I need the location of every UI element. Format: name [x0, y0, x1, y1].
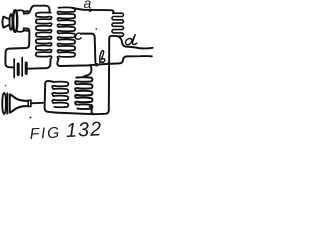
- wire resistor bottom to long vertical: [109, 36, 117, 44]
- wire branch from line b down to coil L4 top: [84, 66, 92, 77]
- wire resistor bottom to right edge (upper lead): [119, 36, 153, 48]
- ink speck: [5, 85, 7, 87]
- coil L1 (induction-coil primary): [36, 13, 52, 59]
- receiver body bottom taper: [10, 106, 28, 112]
- coil L4 (bottom-right coil): [75, 77, 92, 109]
- receiver bell outer ellipse: [2, 93, 6, 114]
- wire node a to resistor top: [84, 10, 113, 14]
- node a junction dot: [89, 9, 92, 12]
- coil L3 (bottom-left coil): [52, 82, 68, 107]
- receiver flange bar 1: [6, 93, 8, 113]
- wire bottom return curl into coil L4 bottom exit: [91, 108, 94, 114]
- wire long vertical (resistor bottom to return wire): [94, 44, 109, 114]
- receiver stub wire: [31, 102, 43, 105]
- receiver collar: [28, 100, 31, 107]
- wire mic top terminal to coil L1 top: [28, 6, 49, 14]
- wire mic bottom terminal down-left to battery: [5, 29, 29, 68]
- battery plate 2 (short thick): [17, 64, 20, 75]
- resistor d (tight meander): [112, 13, 124, 36]
- wire bottom jumper under coils: [56, 113, 94, 115]
- battery plate 3 (long): [21, 58, 23, 77]
- label b (cursive): [100, 51, 105, 63]
- ink speck: [95, 28, 97, 30]
- microphone small disc: [10, 14, 13, 30]
- receiver flange bar 2: [9, 94, 11, 112]
- wire line b from coil L2 exit to right edge: [61, 56, 152, 66]
- svg-text:a: a: [84, 0, 92, 11]
- receiver body top taper: [10, 95, 28, 101]
- wire coil L1 bottom to battery wire: [28, 59, 50, 69]
- wire c (tap) from coil L2 to node b junction: [82, 34, 96, 63]
- microphone mouthpiece cone: [3, 17, 10, 28]
- microphone bracket bottom prong: [17, 28, 28, 32]
- battery plate 1 (long): [13, 59, 15, 78]
- coil L2 (secondary): [57, 8, 75, 59]
- microphone diaphragm disc: [13, 10, 17, 32]
- microphone bracket top prong: [17, 10, 28, 14]
- wire coil L4 bottom-right exit hook: [90, 107, 91, 109]
- label d (cursive): [125, 35, 136, 45]
- battery plate 4 (short thick): [25, 63, 28, 74]
- wire coil L2 top to node a: [73, 8, 85, 10]
- junction blob at long vertical crossing: [107, 62, 110, 65]
- node b junction dot: [95, 63, 99, 67]
- wire coil L2 bottom exit to line b: [57, 59, 60, 66]
- label c (cursive): [75, 33, 81, 39]
- wire coil L3 top lead to vertical V and bottom corner: [45, 81, 56, 113]
- ink speck: [30, 117, 32, 119]
